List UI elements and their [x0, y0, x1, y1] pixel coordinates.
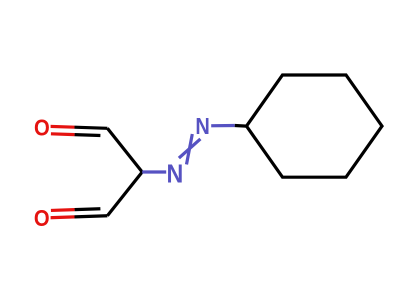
svg-text:O: O [34, 114, 50, 141]
svg-text:N: N [195, 112, 209, 139]
svg-text:O: O [34, 205, 50, 232]
svg-text:N: N [166, 160, 183, 188]
